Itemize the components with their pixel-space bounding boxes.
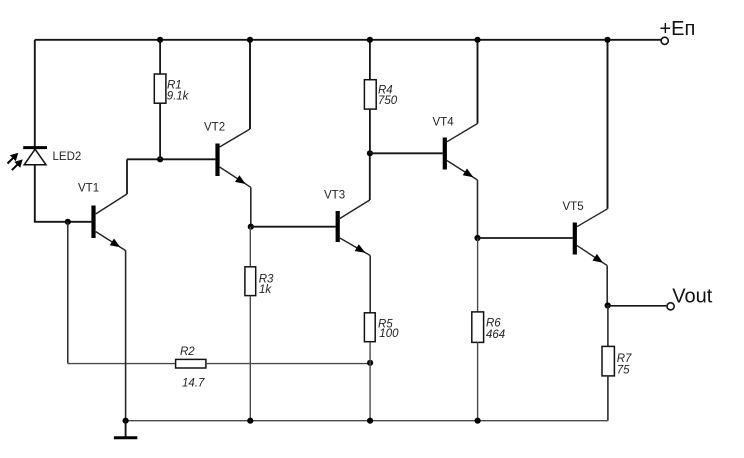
wire top +E supply rail [35,39,661,41]
svg-text:R6: R6 [486,318,501,330]
resistor R6 [472,312,484,343]
svg-text:LED2: LED2 [53,151,82,163]
LED2 light arrow 2 [12,159,23,170]
wire R6 bottom lead down to ground rail [477,342,479,420]
node ground rail / R5 [367,418,373,424]
node VT5 emitter / R7 / Vout junction [605,302,611,308]
svg-text:464: 464 [486,329,505,341]
wire VT3 collector up to R4 junction [369,153,371,200]
svg-text:Vout: Vout [672,285,712,307]
LED2 photodiode cathode bar [23,146,47,149]
svg-text:9.1k: 9.1k [167,91,190,103]
wire VT1 base horizontal [34,221,92,223]
svg-text:R2: R2 [180,346,195,358]
LED2 triangle (anode) [24,149,46,165]
wire R4 bottom lead [369,109,371,153]
transistor VT5 [573,209,608,266]
node R1 bottom junction [157,156,163,162]
node ground rail / R6 [475,418,481,424]
wire R1 bottom lead [159,103,161,159]
svg-text:75: 75 [617,365,630,377]
transistor VT4 [443,124,478,181]
transistor VT3 [336,200,371,256]
node VT1 base / R2 branch junction [65,219,71,225]
svg-text:VT1: VT1 [78,182,99,194]
node VT2 collector on supply rail [247,37,253,43]
wire VT5 emitter down to Vout junction [606,266,608,306]
wire VT1 collector up to base wire of VT2 level [126,159,128,194]
svg-text:VT4: VT4 [433,117,455,129]
wire R2 left segment [68,363,176,365]
node R4 bottom / VT3 collector / VT4 base junction [367,150,373,156]
ground symbol [114,421,137,438]
wire R4 top lead from supply rail [369,40,371,80]
wire R2 right segment to R5 junction [206,363,370,365]
svg-text:14.7: 14.7 [182,378,205,390]
wire R5 bottom lead to R2 junction and ground rail [369,342,371,421]
node ground rail / VT1 emitter [123,418,129,424]
node VT5 collector on supply rail [604,37,610,43]
wire VT3 emitter down to R5 [369,256,371,313]
wire VT4 collector up to supply rail [477,40,479,124]
node VT4 emitter / R6 / VT5 base junction [474,235,480,241]
terminal Vout open circle [667,303,674,310]
wire VT3 base horizontal [251,226,336,228]
wire VT4 base horizontal [370,152,443,154]
node R2 / R5 / VT3 emitter junction [367,360,373,366]
node VT4 collector on supply rail [474,37,480,43]
wire LED2 anode down to VT1 base wire [34,149,36,222]
wire VT4 emitter down to junction [477,180,479,238]
transistor VT1 [91,194,127,251]
wire Vout horizontal [608,305,667,307]
resistor R1 [154,74,166,103]
wire left rail from top rail down to LED2 cathode [34,40,36,147]
wire R3 bottom lead down to ground rail [249,296,251,421]
wire VT2 base horizontal [127,158,215,160]
wire R3 top lead [249,227,251,267]
node R4 top on supply rail [367,37,373,43]
resistor R2 [176,359,206,368]
wire R7 top lead [607,306,609,347]
svg-text:R7: R7 [617,353,632,365]
wire VT5 base horizontal [478,237,573,239]
wire from VT1-base junction down to R2 level [67,222,69,364]
node ground rail / R3 [247,418,253,424]
svg-text:+Eп: +Eп [660,18,696,40]
wire VT2 emitter down to junction [250,187,252,226]
resistor R5 [364,313,375,342]
svg-text:1k: 1k [259,284,272,296]
node VT2 emitter / R3 / VT3 base junction [248,224,254,230]
terminal +E supply open circle [661,37,668,44]
svg-text:100: 100 [379,328,399,340]
svg-text:VT5: VT5 [563,201,584,213]
wire R7 bottom lead down to ground rail corner [607,376,609,421]
wire R6 top lead [477,238,479,312]
wire R1 top lead from supply rail [159,40,161,74]
wire VT2 collector up to supply rail [249,40,251,129]
wire VT5 collector up to supply rail [607,40,609,209]
svg-text:VT3: VT3 [324,190,345,202]
svg-text:VT2: VT2 [204,122,225,134]
LED2 light arrow 1 [8,153,19,164]
wire VT1 emitter down to ground rail [125,250,127,421]
resistor R4 [364,80,376,109]
wire bottom ground rail [126,420,608,422]
node R1 top on supply rail [157,37,163,43]
transistor VT2 [215,129,250,187]
resistor R3 [245,267,256,296]
svg-text:750: 750 [378,95,398,107]
resistor R7 [602,346,614,376]
